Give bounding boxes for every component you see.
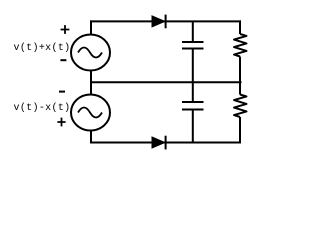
wire right vertical upper stub xyxy=(239,20,241,34)
wire capacitor branch upper lead xyxy=(192,21,194,42)
V1 plus sign xyxy=(61,25,70,34)
diode D1 triangle xyxy=(152,16,165,27)
V2 minus sign xyxy=(59,91,65,93)
V2 plus sign xyxy=(57,118,65,127)
wire capacitor C2 upper lead xyxy=(192,82,194,102)
capacitor C1 top plate xyxy=(182,41,204,43)
capacitor C2 top plate xyxy=(182,101,204,103)
capacitor C1 bottom plate xyxy=(182,48,204,50)
wire top horizontal xyxy=(90,20,241,22)
wire capacitor C1 lower lead xyxy=(192,49,194,83)
resistor R1 xyxy=(234,34,247,57)
wire capacitor C2 lower lead xyxy=(192,110,194,143)
wire stub between sources xyxy=(90,70,92,96)
svg-text:v(t)-x(t): v(t)-x(t) xyxy=(14,102,71,114)
voltage source V1 circle xyxy=(71,35,110,71)
wire right vertical lower xyxy=(239,117,241,144)
svg-text:v(t)+x(t): v(t)+x(t) xyxy=(14,42,71,54)
wire bottom horizontal xyxy=(90,142,241,144)
wire bottom-left stub from source V2 xyxy=(90,130,92,144)
wire right vertical middle xyxy=(239,57,241,95)
wire top-left stub down to source V1 xyxy=(90,20,92,35)
diode D1 cathode bar xyxy=(165,15,167,29)
capacitor C2 bottom plate xyxy=(182,109,204,111)
voltage source V2 sine xyxy=(78,108,102,118)
diode D2 triangle xyxy=(152,137,165,148)
V1 minus sign xyxy=(60,59,66,61)
wire middle horizontal xyxy=(91,81,242,83)
resistor R2 xyxy=(234,95,247,118)
diode D2 cathode bar xyxy=(165,136,167,150)
voltage source V1 sine xyxy=(78,48,102,58)
voltage source V2 circle xyxy=(71,95,110,131)
